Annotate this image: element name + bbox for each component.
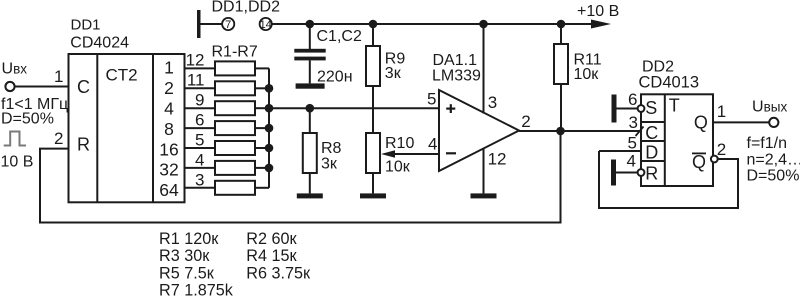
wire chassis to pin 7 (201, 23, 223, 25)
svg-text:5: 5 (628, 134, 637, 153)
wire S pin (617, 108, 638, 110)
svg-text:R1-R7: R1-R7 (212, 44, 258, 61)
svg-text:D=50%: D=50% (747, 167, 800, 184)
resistor R11 (554, 24, 568, 131)
node rail-C1 junction (306, 20, 315, 29)
svg-text:DD1,DD2: DD1,DD2 (212, 0, 281, 15)
svg-text:R3 30к: R3 30к (159, 247, 210, 265)
svg-text:3: 3 (629, 113, 638, 132)
svg-text:R4 15к: R4 15к (246, 247, 297, 265)
node bus row6 (265, 164, 274, 173)
svg-text:Uвх: Uвх (2, 60, 28, 77)
wire DD1 R pin feedback (down, across bottom, up to output node) (40, 131, 561, 223)
minus input mark (446, 152, 456, 154)
svg-text:+10 В: +10 В (577, 3, 619, 20)
svg-text:DA1.1: DA1.1 (433, 52, 478, 69)
node bus row2 (265, 84, 274, 93)
svg-text:3к: 3к (385, 65, 402, 82)
wire D input (599, 150, 641, 152)
pin 14 circle (260, 18, 272, 31)
svg-text:T: T (669, 95, 680, 115)
resistor R8 (303, 108, 317, 193)
svg-text:12: 12 (488, 150, 507, 169)
svg-text:2: 2 (717, 140, 726, 159)
svg-text:2: 2 (54, 129, 63, 148)
row Q4: weight 8, pin 6, resistor R4 (164, 111, 269, 139)
svg-text:14: 14 (260, 19, 272, 31)
svg-text:LM339: LM339 (432, 68, 481, 85)
svg-text:64: 64 (159, 180, 179, 200)
flip-flop DD2 box (641, 94, 713, 186)
wire R pin (616, 172, 638, 174)
wire pin 12 to ground (483, 148, 485, 193)
svg-text:n=2,4…: n=2,4… (747, 151, 800, 168)
svg-text:11: 11 (187, 71, 205, 90)
node bus row5 (265, 144, 274, 153)
svg-text:R6 3.75к: R6 3.75к (246, 264, 311, 282)
ground under R8 (297, 193, 323, 198)
svg-text:S: S (645, 98, 657, 118)
pin 7 circle (222, 18, 234, 31)
svg-text:R8: R8 (321, 140, 342, 157)
node rail-R9 junction (369, 20, 378, 29)
svg-text:1: 1 (54, 67, 63, 86)
svg-text:1: 1 (717, 102, 726, 121)
svg-text:2: 2 (521, 112, 530, 131)
svg-text:4: 4 (195, 150, 204, 169)
svg-text:5: 5 (195, 130, 204, 149)
svg-text:5: 5 (427, 90, 436, 109)
resistor R9 (366, 24, 380, 133)
counter DD1 box (69, 54, 185, 202)
ground chassis bar at S pin (612, 95, 617, 123)
wire wiper to comparator - input (394, 153, 439, 155)
svg-text:DD1: DD1 (71, 17, 101, 34)
svg-text:C: C (77, 77, 90, 97)
svg-text:16: 16 (159, 139, 178, 159)
ground chassis bar at R pin (611, 160, 616, 186)
wire comparator output to DD2 C input (519, 130, 641, 132)
ground chassis bar (power pins) (197, 10, 201, 38)
node rail-R11 junction (557, 20, 566, 29)
svg-text:D: D (645, 143, 658, 163)
R10 wiper arrow (381, 150, 395, 158)
svg-text:10к: 10к (574, 66, 600, 83)
ground under R10 (360, 193, 386, 198)
S inversion bubble (638, 105, 645, 112)
svg-text:3: 3 (488, 93, 497, 112)
capacitor C1,C2 (294, 24, 325, 83)
node rail-pin3 junction (479, 20, 488, 29)
svg-text:32: 32 (159, 160, 178, 180)
svg-text:C: C (645, 123, 658, 143)
svg-text:10 В: 10 В (1, 153, 34, 170)
terminal Uвх input (5, 82, 14, 91)
terminal Uвых output (769, 118, 778, 127)
svg-text:6: 6 (195, 111, 204, 130)
svg-text:Q: Q (694, 112, 708, 132)
wire pin 3 to rail (483, 24, 485, 114)
wire input to DD1 pin 1 (15, 86, 69, 88)
ground under comparator (471, 193, 497, 198)
row Q3: weight 4, pin 9, resistor R3 (164, 91, 269, 119)
svg-text:220н: 220н (317, 68, 353, 85)
svg-text:2: 2 (164, 78, 174, 98)
svg-text:3: 3 (195, 170, 204, 189)
plus input mark (446, 104, 455, 113)
svg-text:1: 1 (164, 57, 174, 77)
svg-text:f=f1/n: f=f1/n (747, 135, 787, 152)
node bus row4 (265, 124, 274, 133)
svg-text:D=50%: D=50% (1, 111, 54, 128)
wire Q-bar feedback to D (599, 151, 738, 208)
svg-text:9: 9 (195, 91, 204, 110)
row Q7: weight 64, pin 3, resistor R7 (159, 170, 269, 200)
row Q2: weight 2, pin 11, resistor R2 (164, 71, 269, 98)
R inversion bubble (638, 169, 645, 176)
svg-text:4: 4 (627, 152, 636, 171)
svg-text:R1 120к: R1 120к (159, 230, 219, 248)
svg-text:8: 8 (164, 119, 174, 139)
svg-text:CT2: CT2 (105, 65, 137, 84)
svg-text:R5 7.5к: R5 7.5к (159, 264, 215, 282)
svg-text:4: 4 (164, 98, 174, 118)
trimmer R10 (366, 133, 380, 193)
wire summing bus vertical (268, 68, 270, 187)
svg-text:7: 7 (225, 19, 231, 31)
label Q-bar (692, 152, 706, 172)
svg-text:R2 60к: R2 60к (246, 230, 297, 248)
row Q1: weight 1, pin 12, resistor R1 (164, 51, 269, 78)
svg-text:R: R (77, 135, 90, 155)
node output junction (556, 127, 565, 136)
svg-text:CD4013: CD4013 (639, 74, 700, 92)
row Q6: weight 32, pin 4, resistor R6 (159, 150, 269, 179)
wire summing node to comparator + input (269, 107, 439, 109)
svg-text:R7 1.875k: R7 1.875k (159, 282, 234, 296)
svg-text:CD4024: CD4024 (70, 35, 129, 52)
ground under C1,C2 (296, 83, 325, 88)
svg-text:Q: Q (692, 152, 706, 172)
svg-text:C1,C2: C1,C2 (317, 28, 362, 45)
wire +10V rail (272, 23, 591, 25)
svg-text:6: 6 (628, 90, 637, 109)
svg-text:R10: R10 (385, 135, 414, 152)
C dynamic input slash (636, 127, 644, 137)
svg-text:R: R (645, 164, 658, 184)
svg-text:10к: 10к (385, 158, 411, 175)
row Q5: weight 16, pin 5, resistor R5 (159, 130, 269, 159)
Q-bar inversion bubble (711, 156, 718, 163)
svg-text:12: 12 (186, 51, 205, 70)
svg-text:4: 4 (428, 134, 437, 153)
wire Q output (713, 121, 769, 123)
svg-text:3к: 3к (321, 156, 338, 173)
node bus row3 (265, 104, 274, 113)
svg-text:Uвых: Uвых (752, 99, 787, 116)
+10 В supply arrow (591, 20, 611, 29)
node summing-R8 junction (306, 104, 315, 113)
op-amp DA1.1 comparator triangle (439, 90, 519, 171)
pulse waveform symbol (4, 132, 26, 146)
